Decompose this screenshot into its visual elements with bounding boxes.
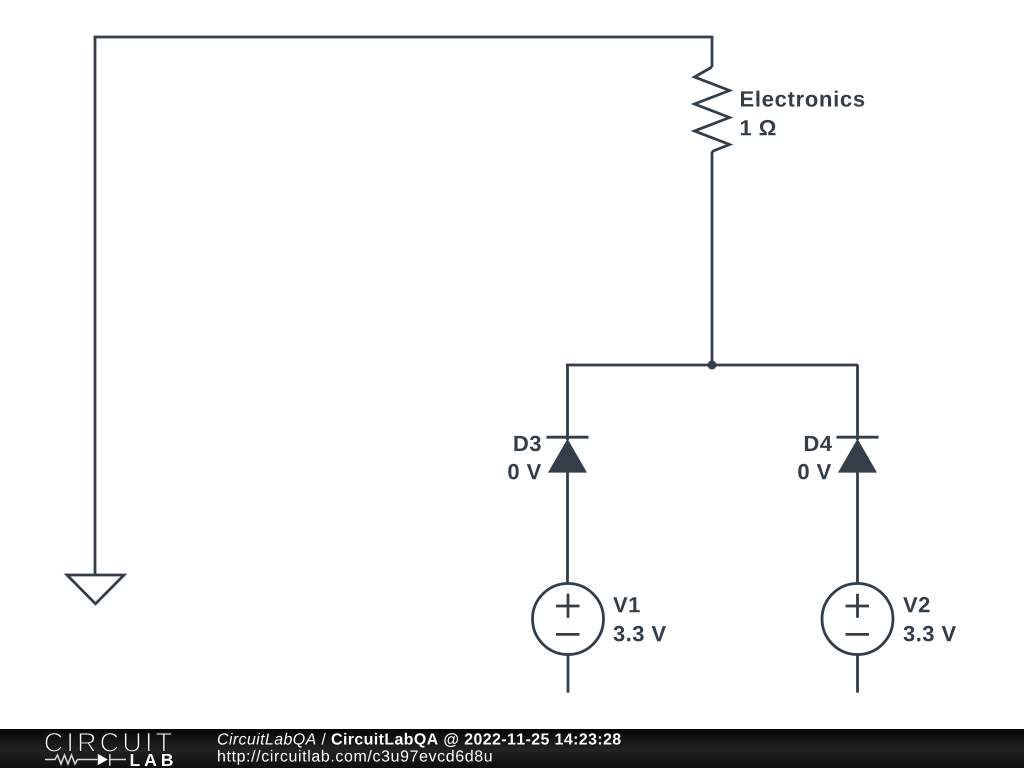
wire resistor to node	[711, 152, 714, 366]
logo diode triangle	[98, 754, 108, 765]
diode D3 cathode bar	[547, 436, 589, 439]
wire top stub into resistor	[711, 37, 714, 67]
wire node horizontal	[566, 364, 858, 367]
wire D3 to V1	[566, 471, 569, 583]
wire below V2	[856, 655, 859, 692]
label V2	[903, 597, 929, 612]
footer line 2 http://circuitlab.com/c3u97evcd6d8u	[218, 750, 492, 765]
wire D4 to V2	[856, 471, 859, 583]
label D3 value 0 V	[508, 464, 541, 480]
label V1	[613, 597, 640, 612]
logo resistor-diode glyph	[45, 754, 126, 766]
diode D3 triangle	[548, 439, 587, 473]
label D4	[805, 436, 832, 451]
voltage source V1 circle	[533, 584, 604, 655]
wire top horizontal	[94, 36, 714, 39]
wire below V1	[567, 655, 570, 692]
label 1 ohm	[741, 120, 776, 135]
label V2 value 3.3 V	[904, 626, 957, 642]
V2 minus sign	[846, 633, 870, 636]
V1 minus sign	[556, 633, 580, 636]
node junction dot	[708, 361, 717, 370]
resistor R1 Electronics zigzag	[695, 67, 730, 152]
footer line 1 CircuitLabQA / CircuitLabQA @ 2022-11-25 14:23:28	[218, 733, 621, 748]
voltage source V2 circle	[822, 584, 893, 655]
diode D4 triangle	[838, 439, 877, 473]
V1 plus sign	[556, 605, 580, 608]
wire left branch down to D3	[566, 365, 569, 440]
diode D4 cathode bar	[837, 436, 879, 439]
wire left vertical to ground	[94, 37, 97, 575]
label V1 value 3.3 V	[614, 626, 667, 642]
CircuitLab logo CIRCUIT	[45, 733, 171, 752]
V2 plus sign	[846, 605, 870, 608]
wire right branch down to D4	[856, 365, 859, 440]
CircuitLab logo LAB	[131, 754, 173, 766]
label D3	[514, 436, 540, 452]
label Electronics	[741, 91, 864, 107]
footer bar	[0, 729, 1024, 768]
label D4 value 0 V	[798, 464, 831, 480]
ground	[67, 575, 124, 604]
